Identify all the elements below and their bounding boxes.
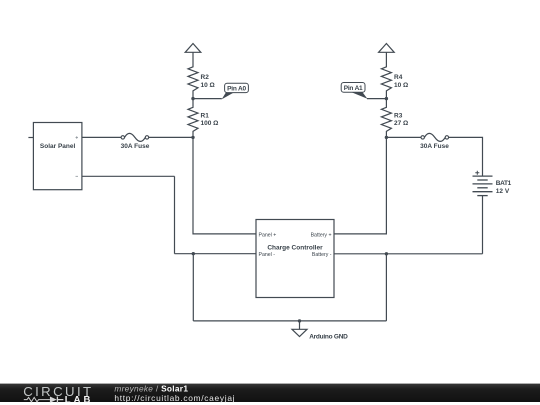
footer url line: [114, 393, 235, 403]
svg-text:Pin A1: Pin A1: [344, 85, 363, 92]
R1 name label: [201, 112, 210, 119]
node Battery- junction: [385, 252, 388, 255]
resistor R2: [188, 52, 198, 98]
wire fuse F2 to battery top: [449, 137, 483, 176]
svg-text:R2: R2: [201, 74, 210, 81]
CircuitLab logo resistor zigzag: [24, 397, 50, 401]
battery + mark: [475, 171, 479, 175]
svg-text:http://circuitlab.com/caeyjaj: http://circuitlab.com/caeyjaj: [114, 393, 235, 403]
wire fuse F2 to battery: [386, 136, 421, 138]
CircuitLab logo LAB: [65, 394, 94, 405]
svg-text:Battery +: Battery +: [311, 232, 332, 238]
svg-text:R1: R1: [201, 112, 210, 119]
svg-text:R3: R3: [394, 112, 403, 119]
svg-text:Charge Controller: Charge Controller: [267, 244, 323, 251]
U1 pin label Panel +: [259, 232, 277, 238]
svg-text:mreyneke / Solar1: mreyneke / Solar1: [114, 383, 188, 393]
resistor R1: [188, 99, 198, 138]
U1 pin label Battery -: [312, 252, 332, 258]
footer bar: [0, 384, 540, 402]
wire ground rail: [193, 320, 386, 322]
wire solar- right: [82, 175, 175, 177]
node Pin A0 junction: [191, 97, 194, 100]
wire Battery- junction down to rail: [385, 254, 387, 321]
CircuitLab logo diode: [50, 397, 64, 403]
R4 value label: [394, 82, 408, 89]
node battery+/R3 junction: [385, 136, 388, 139]
svg-text:30A Fuse: 30A Fuse: [420, 143, 449, 150]
F2 value label 30A Fuse: [420, 143, 449, 150]
svg-text:BAT1: BAT1: [496, 180, 512, 187]
svg-text:Panel -: Panel -: [259, 252, 276, 258]
CircuitLab logo CIRCUIT: [23, 384, 93, 399]
resistor R3: [381, 99, 391, 138]
R2 value label: [201, 82, 215, 89]
resistor R4: [381, 52, 391, 98]
flag Pin A1: [341, 83, 367, 99]
ground Arduino GND: [292, 329, 307, 336]
node Panel- junction: [192, 252, 195, 255]
BAT1 name label: [496, 180, 512, 187]
footer author line: [114, 383, 188, 393]
ground label Arduino GND: [309, 334, 348, 341]
svg-text:Pin A0: Pin A0: [227, 85, 246, 92]
power flag arrow right: [379, 44, 395, 53]
BAT1 value label: [496, 188, 510, 195]
wire Panel- down to ground rail: [192, 254, 194, 321]
svg-text:27 Ω: 27 Ω: [394, 120, 408, 127]
node solar+/R1 junction: [191, 136, 194, 139]
power flag arrow left: [185, 44, 201, 53]
wire Battery- right: [334, 253, 483, 255]
U1 pin label Panel -: [259, 252, 276, 258]
node ground junction: [298, 319, 301, 322]
wire solar- to Panel-: [175, 253, 257, 255]
wire Pin A1 stub: [367, 98, 386, 100]
svg-text:Arduino GND: Arduino GND: [309, 334, 348, 341]
wire ground stub: [299, 321, 301, 329]
solar panel + mark: [76, 136, 79, 139]
R3 value label: [394, 120, 408, 127]
fuse F1 30A: [121, 133, 149, 141]
svg-text:30A Fuse: 30A Fuse: [121, 143, 150, 150]
R1 value label: [201, 120, 219, 127]
fuse F2 30A: [421, 133, 449, 141]
svg-text:Panel +: Panel +: [259, 232, 277, 238]
solar panel box SP1: [33, 123, 82, 190]
R2 name label: [201, 74, 210, 81]
svg-text:Battery -: Battery -: [312, 252, 332, 258]
charge controller box U1: [256, 220, 334, 298]
svg-text:LAB: LAB: [65, 394, 94, 405]
wire battery bottom: [482, 196, 484, 254]
wire fuse F1 to node A: [149, 136, 193, 138]
R3 name label: [394, 112, 403, 119]
U1 pin label Battery +: [311, 232, 332, 238]
wire Pin A0 stub: [193, 98, 222, 100]
svg-text:100 Ω: 100 Ω: [201, 120, 219, 127]
F1 value label 30A Fuse: [121, 143, 150, 150]
node Pin A1 junction: [385, 97, 388, 100]
svg-text:10 Ω: 10 Ω: [394, 82, 408, 89]
wire solar+ to fuse F1: [82, 136, 121, 138]
svg-text:R4: R4: [394, 74, 403, 81]
wire node A down to Panel+: [193, 137, 256, 234]
svg-text:10 Ω: 10 Ω: [201, 82, 215, 89]
wire Battery+ to fuse node: [334, 137, 386, 234]
svg-text:Solar Panel: Solar Panel: [40, 143, 76, 150]
wire solar- down: [174, 176, 176, 253]
wire solar panel left stub: [28, 137, 33, 139]
R4 name label: [394, 74, 403, 81]
solar panel - mark: [76, 175, 79, 177]
svg-text:12 V: 12 V: [496, 188, 510, 195]
battery BAT1: [473, 176, 493, 196]
flag Pin A0: [222, 83, 249, 99]
